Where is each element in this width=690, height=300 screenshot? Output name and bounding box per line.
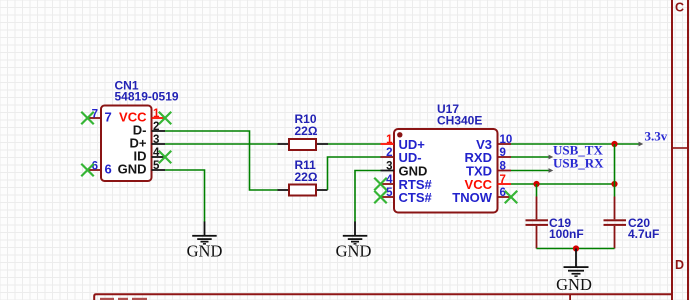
svg-text:6: 6	[500, 187, 506, 199]
net flag 3.3v	[645, 129, 668, 144]
wire D+ from CN1 pin3 to R10	[165, 143, 278, 145]
ground text GND (capacitors)	[556, 275, 592, 294]
CN1 pin 3 stub	[152, 143, 166, 145]
lower sheet block divider	[569, 294, 571, 300]
svg-text:10: 10	[500, 134, 513, 146]
CN1 pin 7 stub	[88, 117, 102, 119]
U17 pin 10 number	[500, 134, 513, 146]
wire V3 to 3.3v rail	[511, 143, 640, 145]
ground text GND (CN1)	[187, 242, 223, 261]
CN1 pin 1 no-connect X	[159, 112, 172, 125]
svg-text:GND: GND	[118, 161, 147, 176]
wire VCC rail to capacitors	[511, 183, 615, 185]
svg-text:GND: GND	[556, 275, 592, 294]
U17 pin 5 stub	[381, 196, 395, 198]
capacitor C19	[526, 197, 549, 249]
U17 pin 8 number	[500, 161, 507, 173]
CN1 pin 7 name	[105, 109, 112, 124]
CN1 pin 6 number (outside)	[92, 160, 98, 172]
resistor R11 leads	[278, 189, 328, 191]
ground symbol under capacitors	[564, 249, 589, 277]
U17 pin 6 number	[500, 187, 506, 199]
wire U17 pin3 to ground	[355, 171, 381, 223]
sheet zone divider tick	[672, 147, 687, 149]
wire R10 to U17 pin1	[328, 143, 381, 145]
CN1 pin 4 stub	[152, 156, 166, 158]
CN1 pin 5 name GND	[118, 161, 147, 176]
capacitor C19 refdes label	[549, 216, 571, 230]
svg-text:6: 6	[105, 161, 112, 176]
U17 pin 10 name V3	[476, 137, 492, 152]
svg-text:7: 7	[105, 109, 112, 124]
net port arrow 3.3v	[639, 142, 644, 147]
junction node V3/C20	[611, 141, 617, 147]
capacitor C20 value 4.7uF	[628, 227, 659, 241]
wire CN1 pin5 to ground	[165, 170, 205, 222]
sheet zone letter D	[675, 258, 684, 272]
svg-text:4.7uF: 4.7uF	[628, 227, 659, 241]
U17 pin 2 number	[386, 147, 392, 159]
svg-text:4: 4	[153, 147, 160, 159]
svg-text:5: 5	[386, 187, 393, 199]
U17 pin 1 stub	[381, 143, 395, 145]
svg-text:54819-0519: 54819-0519	[115, 90, 179, 104]
connector CN1 body	[101, 106, 152, 182]
resistor R11 value 22Ω	[295, 170, 318, 184]
CN1 pin 6 no-connect X	[81, 164, 94, 177]
U17 pin 2 name UD-	[399, 150, 422, 165]
ground symbol under CN1	[192, 222, 217, 245]
svg-text:9: 9	[500, 147, 506, 159]
svg-text:3.3v: 3.3v	[645, 129, 668, 144]
CN1 pin 3 name D+	[130, 135, 147, 150]
resistor R10 body	[289, 139, 316, 150]
IC U17 value CH340E	[437, 114, 482, 128]
sheet border right outer line	[687, 0, 689, 300]
svg-text:D: D	[675, 258, 684, 272]
resistor R11 refdes label	[295, 158, 317, 172]
lower sheet block top border	[94, 294, 672, 300]
junction node bottom rail / ground	[573, 245, 579, 251]
U17 pin 4 stub	[381, 183, 395, 185]
CN1 pin 7 no-connect X	[81, 112, 94, 125]
wire capacitor bottom rail	[537, 248, 615, 250]
U17 pin 9 number	[500, 147, 506, 159]
CN1 pin 2 name D-	[133, 122, 147, 137]
U17 pin 9 name RXD	[465, 150, 492, 165]
CN1 pin 2 number	[153, 121, 159, 133]
capacitor C20	[604, 197, 627, 249]
svg-text:CTS#: CTS#	[399, 190, 433, 205]
CN1 pin 7 number (outside)	[92, 108, 98, 120]
svg-text:3: 3	[153, 134, 159, 146]
svg-text:2: 2	[153, 121, 159, 133]
lower sheet block clipped content	[100, 298, 147, 300]
net port arrow USB_TX	[549, 155, 554, 160]
IC U17 body	[394, 129, 498, 213]
svg-text:100nF: 100nF	[549, 227, 584, 241]
CN1 pin 5 number	[153, 160, 160, 172]
U17 pin 10 stub	[498, 143, 512, 145]
net label USB_TX	[553, 142, 603, 157]
CN1 pin 1 stub	[152, 117, 166, 119]
connector CN1 value label 54819-0519	[115, 90, 179, 104]
U17 pin 7 number	[500, 174, 506, 186]
U17 pin 8 stub	[498, 170, 512, 172]
sheet border right inner line	[671, 0, 673, 300]
svg-text:1: 1	[153, 108, 160, 120]
junction node VCC/C20	[611, 181, 617, 187]
U17 pin 1 name UD+	[399, 137, 426, 152]
U17 pin 6 name TNOW	[452, 190, 492, 205]
wire RXD to USB_TX port	[511, 156, 550, 158]
U17 pin 4 name RTS#	[399, 177, 433, 192]
capacitor C20 refdes label	[628, 216, 650, 230]
U17 pin 2 stub	[381, 156, 395, 158]
svg-text:2: 2	[386, 147, 392, 159]
capacitor C19 value 100nF	[549, 227, 584, 241]
svg-text:7: 7	[500, 174, 506, 186]
wire TXD to USB_RX port	[511, 170, 550, 172]
U17 pin 3 stub	[381, 170, 395, 172]
resistor R10 value 22Ω	[295, 124, 318, 138]
CN1 pin 1 number	[153, 108, 160, 120]
U17 pin 4 no-connect X	[374, 178, 387, 191]
ground symbol under U17	[343, 222, 368, 245]
wire R11 to U17 pin2	[328, 157, 381, 190]
resistor R11 body	[289, 185, 316, 196]
U17 pin 5 no-connect X	[374, 191, 387, 204]
wire C20 top lead from 3.3v junction	[614, 144, 616, 197]
CN1 pin 6 stub	[88, 169, 102, 171]
U17 pin 1 number	[386, 134, 393, 146]
junction node VCC/C19	[533, 181, 539, 187]
U17 pin 4 number	[386, 174, 393, 186]
IC U17 pin1 marker dot	[397, 132, 402, 137]
U17 pin 3 number	[386, 161, 392, 173]
sheet zone letter C	[675, 1, 684, 15]
wire D- from CN1 pin2 to R11	[165, 131, 278, 190]
svg-text:22Ω: 22Ω	[295, 170, 318, 184]
U17 pin 7 name VCC	[465, 177, 493, 192]
CN1 pin 6 name	[105, 161, 112, 176]
CN1 pin 4 number	[153, 147, 160, 159]
resistor R10 leads	[278, 143, 329, 145]
svg-text:1: 1	[386, 134, 393, 146]
U17 pin 9 stub	[498, 156, 512, 158]
U17 pin 6 stub	[498, 196, 512, 198]
U17 pin 7 stub	[498, 183, 512, 185]
U17 pin 3 name GND	[399, 164, 428, 179]
resistor R10 refdes label	[295, 112, 317, 126]
svg-text:3: 3	[386, 161, 392, 173]
svg-text:5: 5	[153, 160, 160, 172]
svg-text:22Ω: 22Ω	[295, 124, 318, 138]
ground text GND (U17)	[336, 242, 372, 261]
svg-text:GND: GND	[187, 242, 223, 261]
U17 pin 5 name CTS#	[399, 190, 433, 205]
svg-text:GND: GND	[336, 242, 372, 261]
CN1 pin 4 name ID	[134, 148, 147, 163]
net label USB_RX	[553, 155, 604, 170]
CN1 pin 1 name VCC	[119, 109, 147, 124]
wire C19 top lead	[536, 184, 538, 197]
CN1 pin 4 no-connect X	[159, 151, 172, 164]
svg-text:USB_RX: USB_RX	[553, 155, 604, 170]
U17 pin 8 name TXD	[466, 164, 492, 179]
CN1 pin 2 stub	[152, 130, 166, 132]
svg-text:CH340E: CH340E	[437, 114, 482, 128]
CN1 pin 5 stub	[152, 169, 166, 171]
IC U17 refdes label	[437, 102, 459, 116]
net port arrow USB_RX	[549, 168, 554, 173]
svg-text:TNOW: TNOW	[452, 190, 492, 205]
U17 pin 6 no-connect X	[505, 191, 518, 204]
U17 pin 5 number	[386, 187, 393, 199]
CN1 pin 3 number	[153, 134, 159, 146]
svg-text:C: C	[675, 1, 684, 15]
connector CN1 refdes label	[115, 79, 139, 93]
svg-text:4: 4	[386, 174, 393, 186]
svg-text:8: 8	[500, 161, 507, 173]
